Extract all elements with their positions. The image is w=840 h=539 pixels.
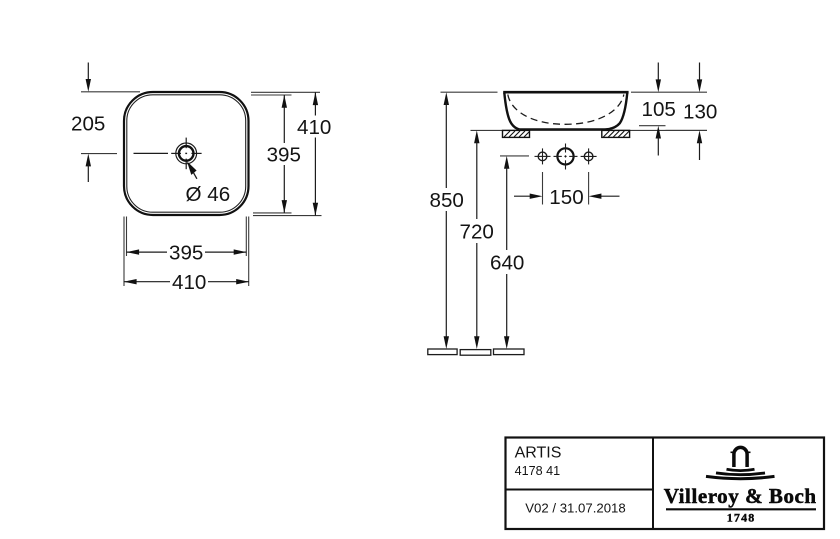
dim 130 arrows [699, 63, 701, 82]
dim 850 vertical line [444, 92, 449, 105]
bottom dims: extension lines from basin corners [123, 217, 125, 287]
dim 395 right bottom extension line [253, 212, 292, 214]
rim extension line right [631, 91, 707, 93]
dim 205 bottom arrow (up) [86, 154, 91, 167]
svg-text:V02 / 31.07.2018: V02 / 31.07.2018 [525, 501, 625, 516]
tap hole right small circle [584, 152, 593, 161]
svg-text:395: 395 [267, 143, 301, 166]
dim 150 extension line below right tap hole [588, 172, 590, 205]
dim 410 horizontal dimension line [124, 281, 170, 283]
tap hole left crosshair [535, 155, 551, 157]
counter line [471, 129, 708, 131]
svg-text:410: 410 [172, 271, 206, 294]
logo arch impost ticks [731, 451, 736, 453]
floor mark middle [460, 350, 491, 356]
dim 105 arrows [657, 63, 659, 82]
inner bowl dashed curve [508, 95, 624, 125]
dim 395 horizontal dimension line [126, 251, 167, 253]
svg-text:Ø 46: Ø 46 [186, 183, 231, 206]
counter hatch block right [602, 130, 630, 137]
dim 410 vertical dimension line [314, 92, 316, 115]
leader arrow for Ø46 [187, 161, 197, 175]
basin profile left side [504, 93, 520, 130]
svg-text:1748: 1748 [727, 510, 756, 524]
basin profile top rim [503, 91, 628, 94]
svg-text:410: 410 [297, 116, 331, 139]
dim 395 right top extension line [251, 94, 292, 96]
basin profile bottom [520, 128, 605, 130]
svg-text:Villeroy & Boch: Villeroy & Boch [664, 484, 817, 508]
dim 720 vertical line [474, 130, 479, 143]
drain hole outer circle [176, 143, 197, 164]
drain centerline vertical (dash-dot) [185, 138, 187, 170]
basin outer outline (top view rounded square) [124, 92, 249, 215]
svg-text:105: 105 [642, 98, 676, 121]
logo ripple arc 1 [727, 469, 755, 470]
dim 130 lower extension line [666, 129, 708, 131]
dim 150 extension line below left tap hole [542, 172, 544, 205]
dim 395 vertical dimension line [283, 95, 285, 143]
rim extension line left [441, 91, 498, 93]
logo arch symbol [734, 447, 747, 467]
svg-text:130: 130 [683, 100, 717, 123]
svg-text:205: 205 [71, 113, 105, 136]
dim 105 lower extension line [639, 125, 666, 127]
svg-text:640: 640 [490, 252, 524, 275]
dim 205 top extension line [81, 91, 140, 93]
drain centerline horizontal (dash-dot) [134, 152, 202, 154]
floor mark right [494, 349, 525, 355]
floor mark left [428, 349, 457, 355]
dim 640 vertical line [504, 156, 509, 169]
counter hatch block left [503, 130, 530, 137]
tap hole left small circle [538, 152, 547, 161]
leader tail [193, 172, 197, 179]
tap hole center circle [557, 148, 573, 164]
svg-text:395: 395 [169, 242, 203, 265]
tap hole center crosshair [554, 155, 578, 157]
tap hole right crosshair [581, 155, 597, 157]
tap centerline extension [500, 155, 529, 157]
title block vertical divider [652, 438, 654, 530]
dim 410 right top extension line [251, 91, 320, 93]
logo ripple arc 2 [716, 473, 765, 475]
basin profile right side [605, 93, 627, 130]
dim 410 right bottom extension line [253, 215, 322, 217]
svg-text:850: 850 [430, 189, 464, 212]
dim 205 bottom extension line [81, 153, 117, 155]
dim 205 top arrow (down) [87, 63, 89, 82]
title block outer frame [506, 438, 825, 530]
drain hole inner circle [179, 146, 194, 161]
dim 150 dimension line with outside arrows [514, 195, 532, 197]
logo ripple arc 3 [706, 476, 775, 478]
svg-text:ARTIS: ARTIS [515, 445, 562, 462]
logo underline [666, 508, 816, 510]
title block horizontal divider [506, 489, 654, 491]
svg-text:150: 150 [549, 186, 583, 209]
svg-text:720: 720 [460, 221, 494, 244]
svg-text:4178 41: 4178 41 [515, 464, 561, 478]
basin inner rim line [127, 95, 246, 212]
